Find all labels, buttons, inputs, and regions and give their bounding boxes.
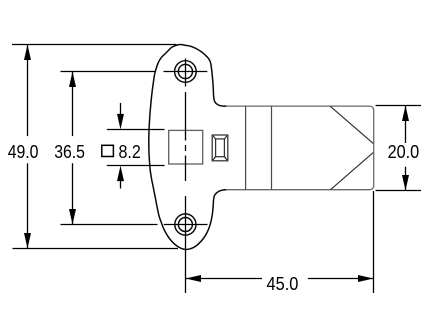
- dim 8.2 ext bottom: [107, 165, 165, 167]
- dim 49.0 ext top: [12, 44, 177, 46]
- top hole outer: [175, 61, 197, 83]
- square symbol: [102, 145, 114, 156]
- svg-text:49.0: 49.0: [8, 141, 39, 162]
- arm vertical line 2: [271, 106, 273, 190]
- svg-text:20.0: 20.0: [388, 141, 420, 162]
- bottom hole horizontal centerline: [164, 224, 208, 226]
- boss outer: [212, 135, 228, 161]
- dim 20.0 ext bottom: [376, 190, 421, 192]
- dim 20.0 ext top: [376, 105, 421, 107]
- vertical centerline: [185, 59, 187, 87]
- arm chamfer diagonal top: [330, 106, 373, 143]
- dim 8.2 ext top: [107, 129, 165, 131]
- boss chamfers: [212, 135, 215, 139]
- svg-text:8.2: 8.2: [119, 141, 141, 162]
- dim 36.5 line: [72, 72, 74, 137]
- arm outline: [226, 106, 374, 190]
- arm vertical line 1: [245, 106, 247, 190]
- boss inner: [216, 139, 225, 157]
- dim 36.5 ext bottom: [61, 224, 158, 226]
- arm chamfer diagonal bottom: [331, 153, 374, 190]
- svg-text:36.5: 36.5: [54, 141, 85, 162]
- dim 45.0 line: [186, 278, 263, 280]
- top hole inner: [178, 64, 192, 78]
- top hole horizontal centerline: [164, 71, 208, 73]
- dim 8.2 arrow top: [120, 103, 122, 117]
- dim 49.0 line: [27, 45, 29, 137]
- dim 49.0 ext bottom: [13, 248, 179, 250]
- dim 20.0 line: [405, 106, 407, 144]
- square hole: [169, 130, 203, 164]
- dim 45.0 ext right: [373, 191, 375, 293]
- dim 36.5 ext top: [61, 71, 156, 73]
- dim 8.2 arrow bottom: [120, 179, 122, 189]
- svg-text:45.0: 45.0: [267, 273, 299, 294]
- plate outline: [149, 44, 227, 249]
- bottom hole inner: [178, 218, 192, 232]
- bottom hole outer: [175, 214, 196, 235]
